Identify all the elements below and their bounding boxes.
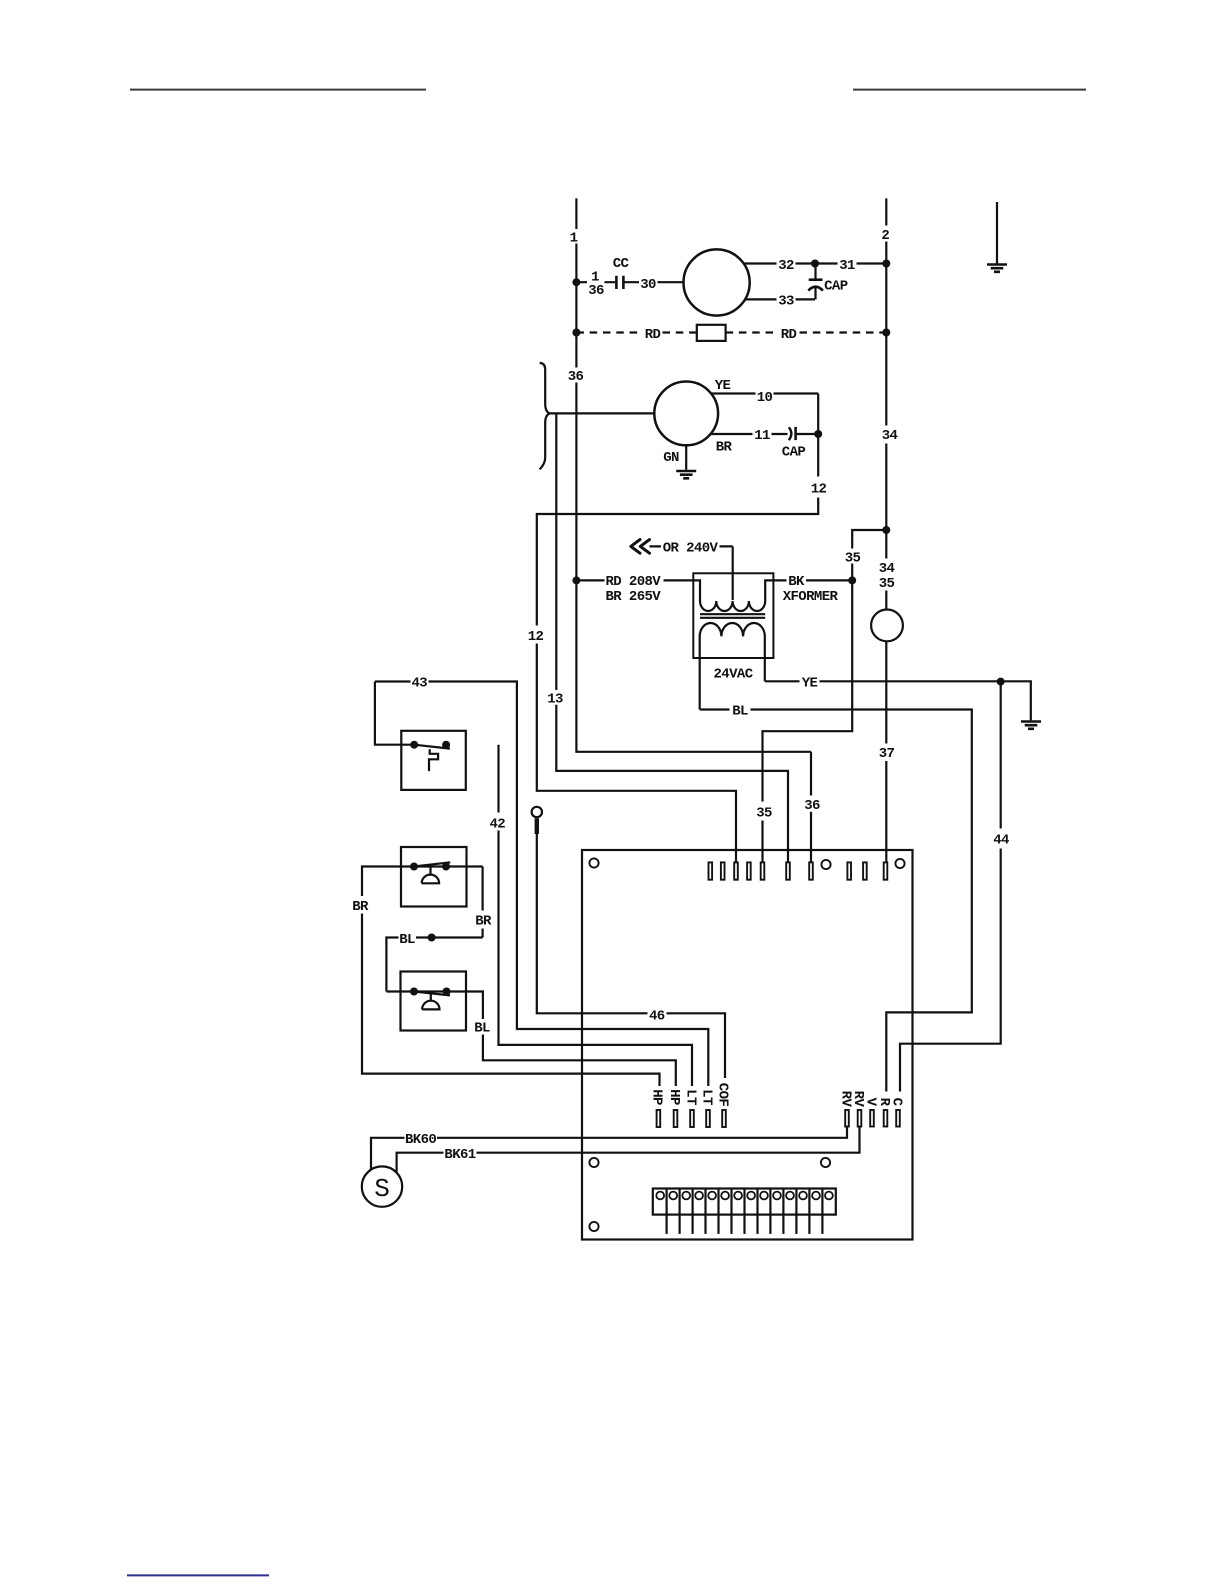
svg-text:44: 44: [993, 833, 1009, 849]
svg-text:33: 33: [778, 293, 794, 309]
svg-text:31: 31: [839, 258, 855, 274]
svg-text:34: 34: [882, 428, 898, 444]
svg-text:35: 35: [879, 576, 895, 592]
svg-text:BK: BK: [788, 574, 805, 590]
svg-text:BR: BR: [716, 440, 733, 456]
svg-text:RD: RD: [645, 327, 661, 343]
svg-text:BK60: BK60: [405, 1132, 436, 1148]
svg-text:24VAC: 24VAC: [713, 667, 753, 683]
svg-text:BL: BL: [732, 704, 748, 720]
svg-text:OR 240V: OR 240V: [663, 541, 719, 557]
svg-text:C: C: [888, 1098, 904, 1107]
svg-text:BK61: BK61: [444, 1147, 475, 1163]
svg-text:10: 10: [757, 390, 773, 406]
svg-text:43: 43: [411, 676, 427, 692]
svg-text:LT: LT: [698, 1089, 714, 1105]
svg-text:2: 2: [881, 228, 889, 244]
svg-text:GN: GN: [663, 450, 679, 466]
svg-text:BR: BR: [475, 914, 492, 930]
svg-text:BL: BL: [474, 1021, 490, 1037]
svg-text:CC: CC: [613, 256, 630, 272]
svg-text:XFORMER: XFORMER: [783, 589, 839, 605]
svg-text:12: 12: [528, 629, 544, 645]
svg-text:RD 208V: RD 208V: [606, 574, 662, 590]
svg-text:13: 13: [547, 692, 563, 708]
svg-text:1: 1: [570, 230, 578, 246]
svg-text:S: S: [374, 1174, 390, 1204]
svg-text:42: 42: [489, 816, 505, 832]
svg-text:36: 36: [588, 283, 604, 299]
svg-text:HP: HP: [666, 1089, 682, 1105]
svg-text:30: 30: [640, 277, 656, 293]
svg-text:36: 36: [804, 798, 820, 814]
svg-text:BL: BL: [399, 932, 415, 948]
svg-text:36: 36: [568, 369, 584, 385]
svg-text:32: 32: [778, 258, 794, 274]
svg-text:YE: YE: [715, 378, 731, 394]
svg-text:12: 12: [811, 481, 827, 497]
svg-text:BR 265V: BR 265V: [606, 589, 662, 605]
svg-text:COF: COF: [714, 1083, 730, 1107]
svg-text:LT: LT: [682, 1089, 698, 1105]
svg-text:BR: BR: [352, 899, 369, 915]
svg-text:11: 11: [754, 428, 770, 444]
svg-text:RD: RD: [781, 327, 797, 343]
svg-text:34: 34: [879, 561, 895, 577]
svg-text:CAP: CAP: [782, 444, 806, 460]
svg-text:YE: YE: [802, 675, 818, 691]
svg-text:HP: HP: [649, 1089, 665, 1105]
svg-text:35: 35: [845, 550, 861, 566]
svg-text:35: 35: [756, 805, 772, 821]
svg-text:CAP: CAP: [824, 279, 848, 295]
svg-text:46: 46: [649, 1008, 665, 1024]
svg-text:37: 37: [879, 746, 895, 762]
